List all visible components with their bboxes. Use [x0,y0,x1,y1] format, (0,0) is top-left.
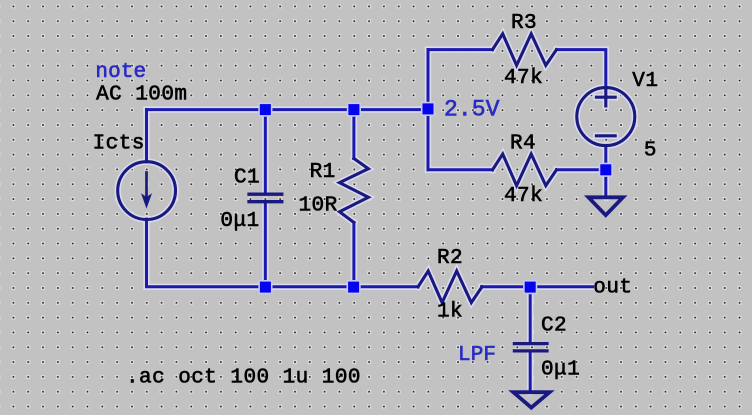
svg-text:Icts: Icts [93,133,145,156]
svg-text:.ac oct 100 1u 100: .ac oct 100 1u 100 [126,367,361,390]
svg-text:R3: R3 [511,12,537,35]
svg-text:10R: 10R [299,195,338,218]
svg-text:R1: R1 [310,161,336,184]
svg-text:5: 5 [644,139,657,162]
svg-text:R2: R2 [437,247,463,270]
svg-text:0μ1: 0μ1 [541,359,580,382]
svg-text:C1: C1 [234,167,260,190]
svg-text:LPF: LPF [458,344,496,367]
svg-text:V1: V1 [632,70,658,93]
svg-text:note: note [95,61,146,84]
svg-text:C2: C2 [541,315,567,338]
svg-text:R4: R4 [510,133,536,156]
svg-text:out: out [593,277,632,300]
svg-text:0μ1: 0μ1 [220,210,259,233]
svg-text:2.5V: 2.5V [444,97,500,123]
svg-text:AC 100m: AC 100m [96,83,187,106]
svg-text:47k: 47k [504,185,543,208]
svg-text:47k: 47k [504,67,543,90]
svg-text:1k: 1k [437,301,463,324]
